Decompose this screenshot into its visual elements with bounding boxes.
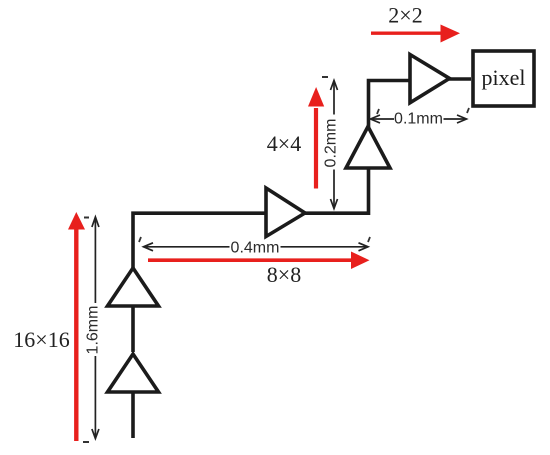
- buffer U2 (upper buffer of 16x16 column): [108, 268, 159, 306]
- dimension 1.6mm: top arrowhead: [92, 217, 99, 227]
- red arrow: 4x4 direction: [314, 108, 318, 189]
- dimension 0.1mm: end ticks: [377, 109, 379, 114]
- svg-text:0.2mm: 0.2mm: [323, 119, 340, 168]
- dimension 0.2mm: top arrowhead: [331, 81, 338, 91]
- buffer U4 (4x4 stage, points up): [346, 127, 390, 169]
- dimension 0.1mm: left arrowhead: [371, 115, 381, 123]
- svg-text:2×2: 2×2: [388, 3, 422, 28]
- buffer U1 (lower buffer of 16x16 column): [108, 354, 159, 392]
- red arrow: 2x2 pitch direction: [371, 32, 443, 35]
- dimension 1.6mm: line: [94, 217, 96, 303]
- svg-text:pixel: pixel: [482, 65, 526, 90]
- wire: bottom input (16x16 column): [131, 354, 135, 438]
- dimension 0.4mm: line: [144, 246, 230, 248]
- pixel box: [473, 51, 534, 106]
- dimension 0.4mm: right arrowhead: [359, 243, 369, 251]
- svg-text:4×4: 4×4: [267, 131, 301, 156]
- wire: U3 output right then up to U4 input: [303, 168, 369, 213]
- svg-text:0.1mm: 0.1mm: [394, 111, 443, 128]
- buffer U5 (2x2 stage, points right): [410, 55, 450, 103]
- svg-text:16×16: 16×16: [13, 327, 69, 352]
- dimension 0.4mm: end ticks: [139, 237, 141, 242]
- dimension 1.6mm: bottom arrowhead: [92, 429, 99, 439]
- dimension 1.6mm: bottom tick: [83, 441, 89, 443]
- dimension 0.1mm: right arrowhead: [457, 115, 467, 123]
- wire: U1 output to U2 input: [131, 306, 135, 352]
- dimension 0.2mm: line: [333, 81, 335, 115]
- wire: U4 output up then right to U5 input: [369, 81, 411, 130]
- wire: U5 output to pixel: [449, 77, 471, 81]
- red arrow: 16x16 direction: [74, 226, 78, 441]
- dimension 0.2mm: bottom arrowhead: [331, 199, 338, 209]
- red arrow: 8x8 direction: [148, 258, 353, 262]
- svg-text:0.4mm: 0.4mm: [231, 240, 280, 257]
- svg-text:1.6mm: 1.6mm: [85, 306, 102, 355]
- dimension 0.1mm: line: [371, 118, 395, 120]
- dimension 0.2mm: top tick: [322, 76, 328, 78]
- dimension 1.6mm: top tick: [84, 217, 89, 219]
- buffer U3 (8x8 stage, points right): [266, 188, 305, 237]
- wire: U2 output up and right to U3 input: [133, 213, 267, 270]
- svg-text:8×8: 8×8: [267, 262, 301, 287]
- dimension 0.4mm: left arrowhead: [144, 243, 154, 251]
